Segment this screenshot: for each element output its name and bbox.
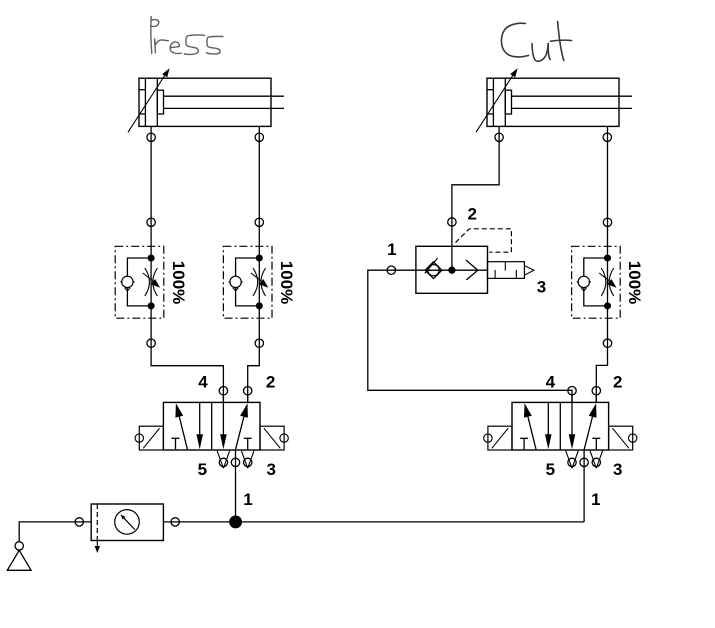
wire right valve port 1 to supply — [583, 450, 585, 522]
wire supply manifold — [163, 521, 584, 523]
wire right cylinder left port to quick exhaust valve port 2 — [452, 126, 499, 270]
junction node 1 supply — [230, 516, 242, 528]
wire right cylinder right port through flow control to right valve port 2 — [596, 126, 607, 402]
wire left valve port 1 to supply — [235, 450, 237, 522]
cylinder Cut — [476, 68, 632, 141]
wire quick exhaust valve port 1 to right valve port 4 — [368, 270, 572, 402]
port labels left valve — [198, 372, 276, 509]
svg-text:2: 2 — [467, 205, 476, 224]
svg-text:1: 1 — [243, 490, 252, 509]
quick exhaust valve — [387, 205, 546, 297]
svg-text:3: 3 — [266, 460, 275, 479]
svg-text:3: 3 — [537, 277, 546, 296]
svg-text:1: 1 — [387, 240, 396, 259]
label Cut — [501, 22, 571, 62]
label Press — [151, 17, 223, 55]
flow control valve left B — [223, 218, 296, 347]
5/2 way valve left — [135, 387, 288, 469]
air service unit — [75, 504, 179, 553]
compressed air source — [7, 542, 31, 571]
svg-text:5: 5 — [198, 460, 207, 479]
svg-text:4: 4 — [546, 372, 556, 391]
5/2 way valve right — [484, 387, 637, 469]
svg-text:4: 4 — [198, 372, 208, 391]
svg-text:2: 2 — [613, 372, 622, 391]
svg-text:5: 5 — [546, 460, 555, 479]
flow control valve right — [572, 218, 645, 347]
svg-text:1: 1 — [591, 490, 600, 509]
svg-text:3: 3 — [613, 460, 622, 479]
flow control valve left A — [115, 218, 188, 347]
wire from air source to service unit — [19, 522, 91, 542]
wire left cylinder right port through flow control to left valve port 2 — [248, 126, 260, 402]
svg-text:2: 2 — [266, 372, 275, 391]
wire left cylinder left port through flow control to left valve port 4 — [151, 126, 223, 402]
port labels right valve — [546, 372, 623, 509]
cylinder Press — [128, 68, 284, 141]
